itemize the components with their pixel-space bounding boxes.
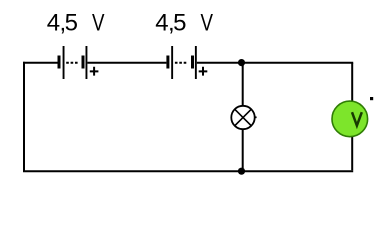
battery B1 plate (thick, cell 2 negative) <box>82 56 85 69</box>
svg-text:5: 5 <box>173 9 186 36</box>
battery B1 plate (thick, cell 1 negative) <box>58 56 61 69</box>
label 4,5 V (battery B2 value) <box>155 9 213 36</box>
wire left side <box>23 62 25 171</box>
lamp L1 body <box>231 106 254 129</box>
label 4,5 V (battery B1 value) <box>47 9 105 36</box>
junction node bottom <box>238 168 245 175</box>
wire bottom side <box>23 170 353 172</box>
battery B2 plate (thick, cell 1 negative) <box>166 56 169 69</box>
svg-text:4: 4 <box>47 9 60 36</box>
battery B1 plate (tall, cell 1 positive) <box>63 46 65 79</box>
svg-text:V: V <box>92 9 105 36</box>
junction node top <box>238 59 245 66</box>
voltmeter V1 letter V <box>352 112 362 125</box>
wire top-left segment <box>23 62 58 64</box>
battery B1 plate (tall, cell 2 positive) <box>86 46 88 79</box>
battery B2 plate (tall, cell 2 positive) <box>195 46 197 79</box>
wire between batteries <box>87 62 166 64</box>
wire right side <box>351 63 353 170</box>
svg-text:4: 4 <box>155 9 168 36</box>
stray black dot marker <box>370 97 373 100</box>
svg-text:5: 5 <box>65 9 78 36</box>
voltmeter V1 body <box>332 101 368 137</box>
battery B1 dashed link between cells <box>66 62 79 64</box>
battery B2 plate (tall, cell 1 positive) <box>171 46 173 79</box>
svg-text:V: V <box>201 9 214 36</box>
battery B2 plus polarity mark <box>199 67 208 76</box>
lamp L1 cross <box>235 109 251 125</box>
wire top-right segment <box>197 62 353 64</box>
battery B2 dashed link between cells <box>175 62 188 64</box>
battery B2 plate (thick, cell 2 negative) <box>191 56 194 69</box>
lamp L1 right stub <box>254 116 256 118</box>
battery B1 plus polarity mark <box>90 67 99 76</box>
wire middle branch <box>242 63 244 171</box>
